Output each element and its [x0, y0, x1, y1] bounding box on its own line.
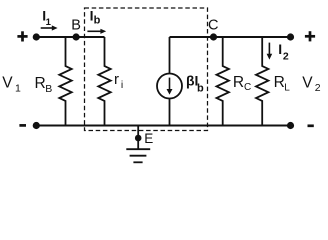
current source beta*Ib [157, 37, 182, 126]
svg-text:R: R [35, 75, 46, 92]
output terminal top dot [287, 33, 294, 40]
svg-text:B: B [45, 83, 52, 95]
svg-text:r: r [114, 71, 119, 88]
svg-text:E: E [144, 131, 153, 146]
resistor RL [256, 37, 268, 126]
minus sign input [19, 124, 26, 127]
svg-text:C: C [244, 82, 251, 93]
node E dot [135, 135, 142, 142]
svg-text:V: V [2, 75, 13, 92]
wire bottom (common rail) [36, 125, 290, 127]
current Ib arrow [87, 29, 106, 34]
svg-text:2: 2 [315, 82, 321, 94]
svg-text:V: V [302, 74, 313, 91]
resistor ri [98, 37, 110, 126]
plus sign input [17, 31, 27, 41]
svg-text:2: 2 [283, 50, 289, 62]
plus sign output [305, 31, 315, 41]
svg-text:R: R [274, 74, 285, 91]
resistor RB [59, 37, 71, 126]
svg-text:C: C [208, 18, 218, 34]
svg-text:1: 1 [46, 17, 52, 28]
input terminal top dot [33, 33, 40, 40]
current I2 arrow [267, 43, 273, 60]
ground [126, 126, 150, 163]
current I1 arrow [41, 25, 58, 30]
output terminal bottom dot [287, 122, 294, 129]
svg-text:B: B [71, 18, 81, 34]
node B dot [73, 33, 80, 40]
node C dot [210, 33, 217, 40]
svg-text:L: L [284, 82, 290, 93]
wire top-left (input terminal to node B to r_i) [36, 36, 104, 38]
input terminal bottom dot [33, 122, 40, 129]
minus sign output [308, 124, 314, 127]
svg-text:b: b [197, 83, 204, 95]
wire top-right (current source to node C to output terminal) [170, 36, 291, 38]
svg-text:1: 1 [15, 82, 21, 94]
svg-text:i: i [121, 79, 123, 91]
svg-text:I: I [278, 41, 282, 57]
resistor RC [217, 37, 229, 126]
dashed box (transistor model boundary) [85, 8, 208, 131]
svg-text:R: R [233, 74, 244, 91]
svg-text:b: b [94, 15, 101, 27]
